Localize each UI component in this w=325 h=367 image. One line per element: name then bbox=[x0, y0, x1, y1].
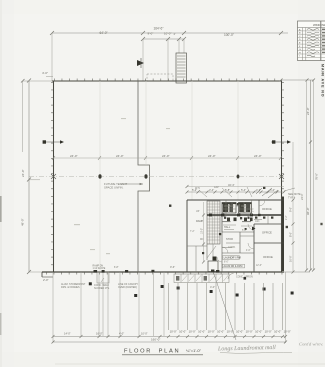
svg-text:9'-0": 9'-0" bbox=[148, 32, 154, 36]
svg-text:8'-0": 8'-0" bbox=[224, 262, 229, 264]
svg-text:W.H.: W.H. bbox=[195, 187, 201, 190]
svg-text:9'-0": 9'-0" bbox=[289, 207, 293, 212]
svg-text:9'-6": 9'-6" bbox=[170, 265, 175, 269]
svg-text:6'-8": 6'-8" bbox=[114, 267, 119, 269]
section flag on top wall bbox=[137, 60, 144, 66]
svg-text:10'-0": 10'-0" bbox=[255, 329, 262, 333]
door arcs bbox=[217, 200, 265, 262]
svg-text:10'-0": 10'-0" bbox=[246, 329, 253, 333]
svg-text:24'-0": 24'-0" bbox=[208, 154, 216, 158]
svg-text:64'-0": 64'-0" bbox=[100, 31, 108, 35]
vertical dim left of hatch strip bbox=[203, 202, 205, 262]
svg-text:5'-4": 5'-4" bbox=[241, 188, 246, 192]
svg-text:LAV.: LAV. bbox=[214, 186, 219, 189]
svg-text:164'-6": 164'-6" bbox=[154, 26, 164, 30]
svg-text:24'-0": 24'-0" bbox=[306, 107, 310, 115]
wall opening markers (left/right walls) bbox=[43, 140, 291, 143]
svg-text:10'-0": 10'-0" bbox=[189, 329, 196, 333]
svg-text:10'-0": 10'-0" bbox=[284, 329, 291, 333]
svg-text:14'-0": 14'-0" bbox=[64, 332, 71, 336]
svg-text:HALL: HALL bbox=[224, 226, 231, 229]
svg-text:10'-0": 10'-0" bbox=[227, 329, 234, 333]
door structure at bottom wall bbox=[97, 272, 109, 283]
svg-text:N: N bbox=[322, 72, 324, 75]
svg-text:FLOOR PLAN: FLOOR PLAN bbox=[124, 349, 180, 355]
extra office clutter bbox=[187, 200, 268, 272]
interior column grid faint verticals bbox=[100, 81, 238, 271]
dim line just right of office wall bbox=[292, 142, 294, 272]
svg-text:WOMEN: WOMEN bbox=[224, 205, 234, 208]
svg-text:OFFICE: OFFICE bbox=[262, 231, 272, 235]
laundry room dark label bbox=[223, 256, 240, 259]
svg-text:ALUM DR & FRM: ALUM DR & FRM bbox=[224, 265, 243, 268]
svg-text:10'-0": 10'-0" bbox=[198, 329, 205, 333]
svg-text:OVER (DASHED): OVER (DASHED) bbox=[118, 286, 137, 289]
svg-text:8'-0": 8'-0" bbox=[289, 232, 293, 237]
canopy posts bbox=[89, 282, 294, 297]
toilets bbox=[227, 218, 253, 222]
svg-text:SPACE UNFIN.: SPACE UNFIN. bbox=[104, 185, 124, 189]
top wall bbox=[52, 80, 282, 82]
bottom wall bbox=[42, 271, 284, 273]
lower small closet bbox=[208, 261, 218, 272]
svg-text:RAMP: RAMP bbox=[196, 220, 204, 223]
svg-text:DN: DN bbox=[200, 239, 204, 241]
office walls bbox=[187, 199, 284, 201]
vertical street text at right edge bbox=[320, 64, 324, 97]
svg-text:JAN.: JAN. bbox=[255, 220, 260, 223]
office dim string above bbox=[187, 191, 284, 193]
svg-text:10'-0": 10'-0" bbox=[200, 228, 203, 234]
first bottom dimension string bbox=[53, 336, 286, 338]
svg-text:LAUNDRY RM: LAUNDRY RM bbox=[224, 256, 241, 260]
svg-text:10'-0": 10'-0" bbox=[179, 329, 186, 333]
left wall bbox=[53, 81, 55, 273]
svg-text:10'-0": 10'-0" bbox=[141, 332, 148, 336]
svg-text:24'-0": 24'-0" bbox=[254, 154, 262, 158]
heavy wall under restrooms bbox=[207, 214, 284, 216]
svg-text:TYP. 4: TYP. 4 bbox=[288, 196, 296, 199]
dashed canopy left of stair bbox=[147, 74, 173, 81]
svg-text:Cont'd w/rev.: Cont'd w/rev. bbox=[299, 341, 323, 346]
svg-text:9'-2": 9'-2" bbox=[286, 215, 288, 220]
stair tower protruding on top bbox=[176, 53, 187, 83]
leader from handwriting to walk bbox=[214, 274, 236, 340]
svg-text:10'-0": 10'-0" bbox=[265, 329, 272, 333]
svg-text:24'-0": 24'-0" bbox=[116, 154, 124, 158]
overall bottom dimension bbox=[53, 341, 286, 343]
right vertical dimension lines bbox=[306, 80, 308, 270]
window schedule table bbox=[298, 21, 325, 61]
svg-text:100'-0": 100'-0" bbox=[224, 33, 234, 37]
svg-text:76'-0": 76'-0" bbox=[315, 173, 319, 180]
partitions right offices bbox=[254, 223, 284, 225]
parking bay labels bbox=[170, 329, 291, 333]
svg-text:10'-0": 10'-0" bbox=[274, 329, 281, 333]
svg-text:10'-0": 10'-0" bbox=[164, 32, 171, 36]
column centre line bbox=[29, 176, 284, 178]
svg-text:DRS. & FRAMES: DRS. & FRAMES bbox=[61, 286, 80, 289]
svg-text:2'-0": 2'-0" bbox=[43, 278, 49, 282]
extra fixture marks bbox=[223, 217, 252, 223]
svg-text:4'-0": 4'-0" bbox=[42, 71, 48, 75]
svg-text:5'-0": 5'-0" bbox=[270, 188, 275, 192]
svg-text:32'-4": 32'-4" bbox=[228, 183, 235, 187]
interior dim line 24'-0" row bbox=[53, 157, 281, 159]
left outside dimension line bbox=[28, 81, 30, 272]
column blob near office bbox=[169, 205, 171, 207]
svg-text:160'-0": 160'-0" bbox=[151, 338, 160, 342]
svg-text:10'-0": 10'-0" bbox=[208, 329, 215, 333]
svg-text:RAMP DN: RAMP DN bbox=[93, 265, 104, 268]
svg-text:48'-0": 48'-0" bbox=[21, 218, 25, 226]
svg-text:10'-0": 10'-0" bbox=[236, 329, 243, 333]
top dimension line bbox=[52, 32, 288, 34]
svg-text:16'-0": 16'-0" bbox=[96, 332, 103, 336]
demising wall with jog bbox=[138, 81, 150, 272]
svg-text:5'-8": 5'-8" bbox=[253, 207, 255, 212]
faint floor smudges bbox=[74, 118, 170, 254]
svg-text:CORR.: CORR. bbox=[228, 246, 236, 249]
tiled corridor / stair hatch strip bbox=[207, 201, 220, 260]
svg-text:5'-0": 5'-0" bbox=[242, 230, 247, 232]
svg-text:1:12 SLOPE: 1:12 SLOPE bbox=[93, 268, 106, 270]
svg-text:10'-0": 10'-0" bbox=[289, 255, 293, 262]
squiggly cell text bbox=[307, 29, 319, 57]
extension lines below wall, left part bbox=[53, 272, 164, 342]
svg-text:4'-0": 4'-0" bbox=[210, 285, 215, 289]
paper edge shading bbox=[0, 0, 2, 367]
svg-text:OFFICE: OFFICE bbox=[262, 207, 272, 211]
black squares / columns in office bbox=[213, 257, 217, 261]
svg-text:SCORED JTS.: SCORED JTS. bbox=[94, 287, 110, 290]
svg-text:4'-6": 4'-6" bbox=[246, 250, 251, 252]
svg-text:UP: UP bbox=[196, 210, 200, 213]
svg-text:¼"=1'-0": ¼"=1'-0" bbox=[186, 348, 202, 353]
svg-text:24'-0": 24'-0" bbox=[162, 154, 170, 158]
svg-text:MEN: MEN bbox=[241, 205, 247, 208]
svg-text:CONC. APRON: CONC. APRON bbox=[236, 276, 253, 279]
parking stripes bbox=[169, 283, 283, 330]
svg-text:G: G bbox=[299, 49, 301, 51]
right wall bbox=[281, 81, 283, 273]
svg-text:4'-0": 4'-0" bbox=[119, 332, 124, 336]
small leader notes top of office bbox=[222, 188, 232, 197]
second dim line bbox=[143, 38, 184, 40]
svg-text:96'-0": 96'-0" bbox=[306, 207, 310, 215]
svg-text:24'-0": 24'-0" bbox=[70, 154, 78, 158]
svg-text:24'-0": 24'-0" bbox=[21, 169, 25, 177]
top-right corner dim bbox=[281, 79, 314, 81]
svg-text:MAIN AVE NO: MAIN AVE NO bbox=[320, 64, 324, 97]
svg-text:OFFICE: OFFICE bbox=[263, 255, 273, 259]
sidewalk fixture band bbox=[174, 274, 229, 283]
svg-text:WINDOW SCH: WINDOW SCH bbox=[313, 23, 325, 27]
svg-text:STOR: STOR bbox=[226, 238, 233, 241]
svg-text:12'-6": 12'-6" bbox=[256, 265, 262, 267]
svg-text:10'-0": 10'-0" bbox=[217, 329, 224, 333]
restroom dark block bbox=[222, 203, 252, 214]
extension lines top bbox=[51, 33, 53, 81]
svg-text:7'-2": 7'-2" bbox=[190, 231, 195, 233]
svg-text:10'-0": 10'-0" bbox=[170, 329, 177, 333]
